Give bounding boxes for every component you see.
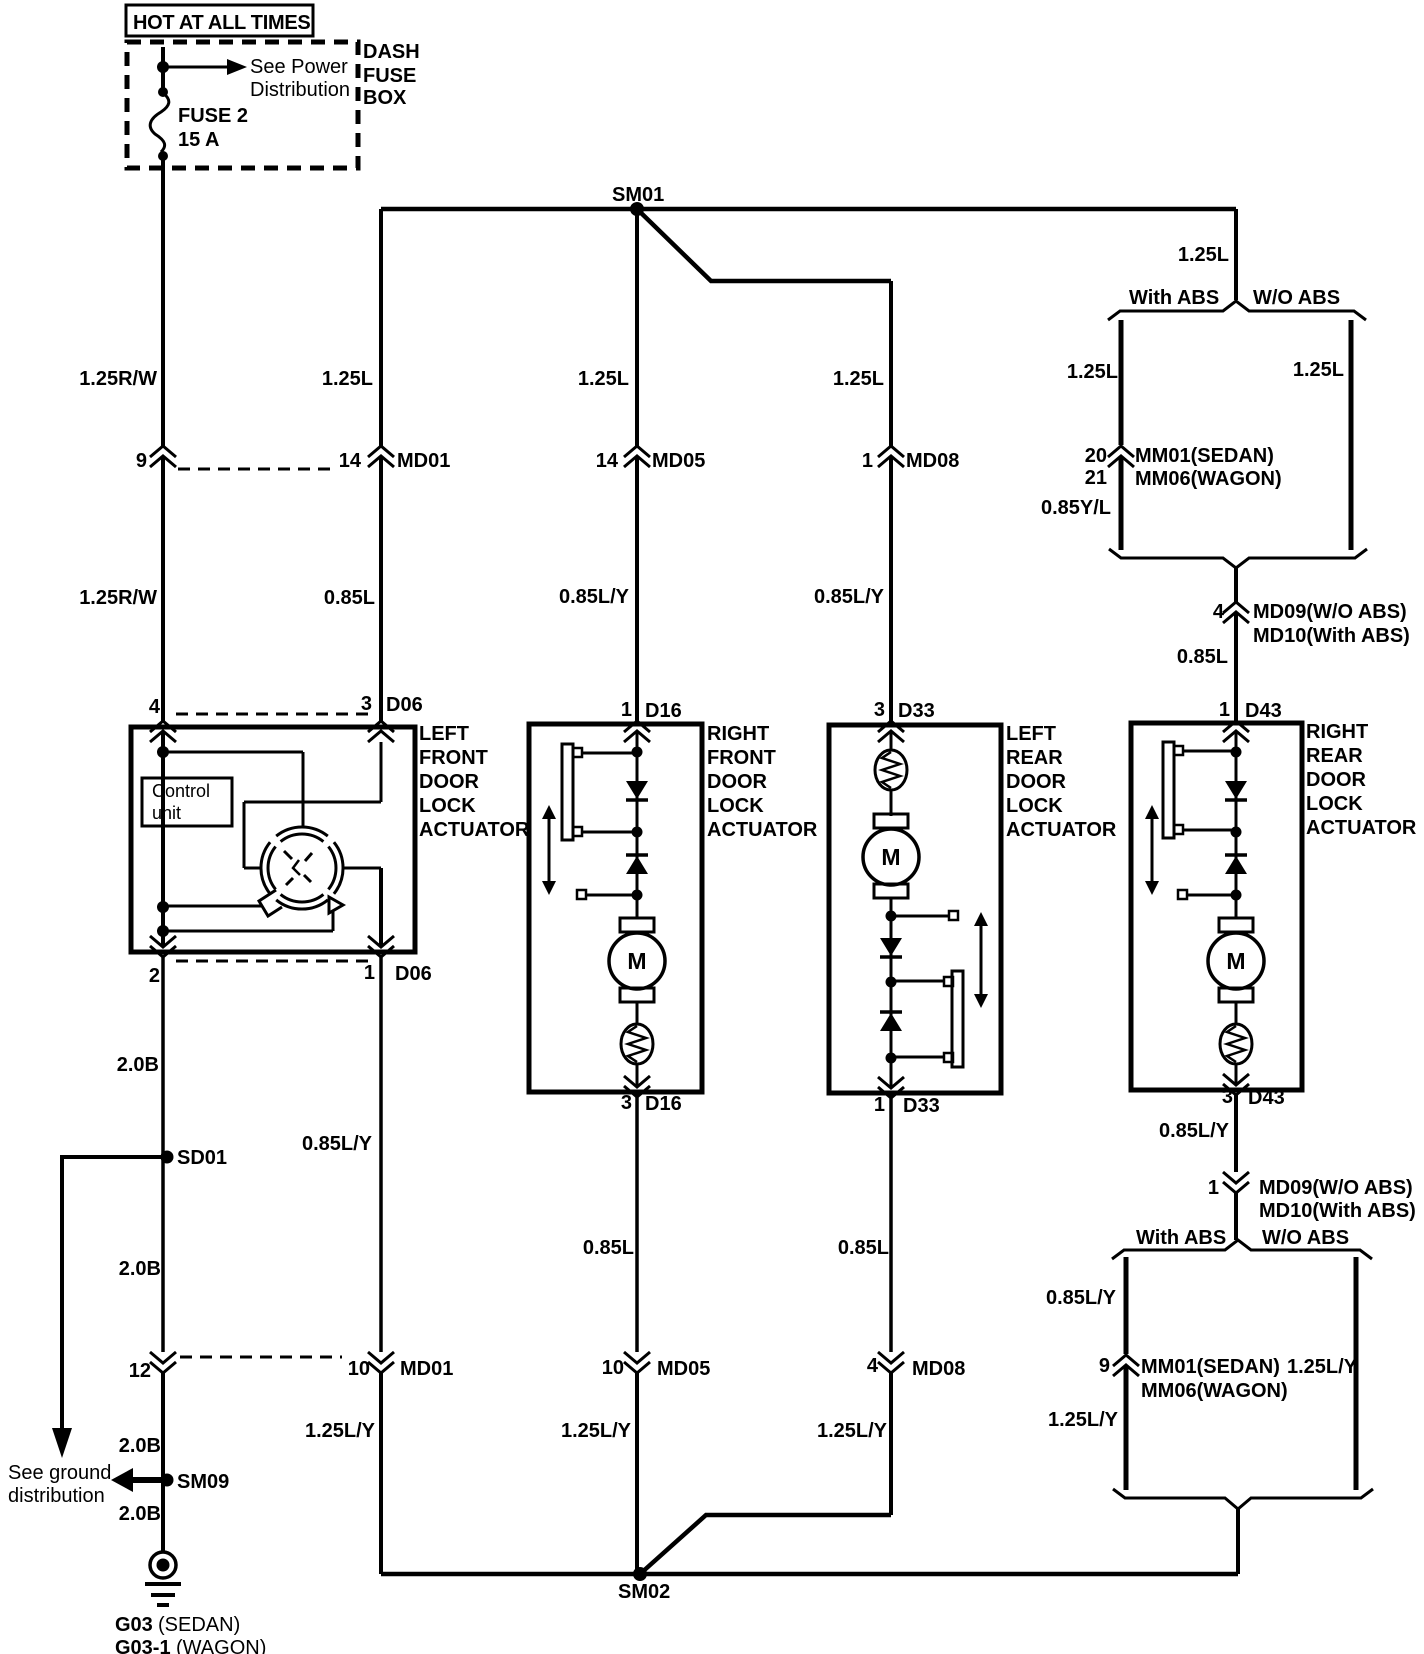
svg-text:3: 3 [1222,1086,1233,1108]
switch plate D43 [1163,742,1183,838]
connector 10 MD01 [348,1352,454,1380]
label box HOT AT ALL TIMES [126,5,313,36]
label MM06(WAGON) lower [1141,1380,1288,1402]
label 1.25R/W lower [79,587,157,609]
connector 14 MD05 [596,446,706,472]
svg-text:4: 4 [149,696,161,718]
svg-text:W/O ABS: W/O ABS [1253,287,1340,309]
svg-text:1.25L: 1.25L [1178,244,1229,266]
svg-text:FRONT: FRONT [419,747,488,769]
svg-text:FUSE: FUSE [363,65,416,87]
connector 4 MD08 [867,1352,965,1380]
svg-text:21: 21 [1085,467,1107,489]
svg-text:D33: D33 [903,1095,940,1117]
svg-text:SM02: SM02 [618,1581,670,1603]
svg-text:1.25R/W: 1.25R/W [79,587,157,609]
svg-text:9: 9 [136,450,147,472]
node D33 lower [886,1053,897,1064]
svg-text:20: 20 [1085,445,1107,467]
dashed link pin2 to pin1 [176,960,368,963]
label 1.25L on C2 [322,368,373,390]
label MM01(SEDAN) lower [1141,1356,1280,1378]
label RIGHT FRONT DOOR LOCK ACTUATOR [707,723,818,841]
wire C5 MD09 to pin 1 [1234,612,1238,721]
svg-text:14: 14 [596,450,619,472]
wire C4 stub to MD08 [889,281,893,446]
connector 9 MM01/MM06 lower [1099,1355,1139,1377]
svg-text:14: 14 [339,450,362,472]
svg-text:0.85L/Y: 0.85L/Y [302,1133,373,1155]
svg-text:See Power: See Power [250,56,348,78]
svg-text:0.85L: 0.85L [1177,646,1228,668]
label SM02 [618,1581,670,1603]
label pin 1 D06 lower [364,962,432,985]
wire C1 connector 9 to pin 4 [161,456,165,721]
wire w/o-ABS branch lower [1354,1257,1359,1490]
svg-text:10: 10 [602,1357,624,1379]
label 1.25L on C3 [578,368,629,390]
brace merge lower (ABS options) [1113,1489,1373,1509]
actuator stroke arrow D33 [974,912,988,1008]
svg-text:W/O ABS: W/O ABS [1262,1227,1349,1249]
svg-text:0.85L/Y: 0.85L/Y [1046,1287,1117,1309]
node D43 top [1231,747,1242,758]
ground symbol G03 [145,1552,181,1605]
label SM09 [177,1471,229,1493]
wire C1 top inside fuse box [161,47,165,95]
box left rear door lock actuator [829,725,1001,1093]
connector 10 MD05 [602,1352,711,1380]
svg-text:1: 1 [621,699,632,721]
label MM01(SEDAN) MM06(WAGON) upper [1135,445,1282,490]
svg-text:D06: D06 [386,694,423,716]
label 0.85L on C5 [1177,646,1228,668]
svg-text:D43: D43 [1245,700,1282,722]
svg-text:ACTUATOR: ACTUATOR [419,819,530,841]
node D33 top [886,911,897,922]
svg-text:15 A: 15 A [178,129,220,151]
node above fuse [158,87,168,97]
svg-text:DOOR: DOOR [419,771,480,793]
pin 3 entry connector D33 [878,721,904,742]
svg-text:LOCK: LOCK [707,795,764,817]
svg-text:REAR: REAR [1006,747,1063,769]
wire w/o-ABS branch upper [1349,320,1354,550]
switch plate D33 [944,971,963,1067]
wire node to plate top D33 [891,980,944,983]
svg-text:10: 10 [348,1358,370,1380]
label With ABS upper [1129,287,1219,309]
wire node to stub terminal D33 [891,911,958,920]
connector 1 MD09/MD10 lower [1208,1172,1249,1199]
wire D43 internal vertical [1235,731,1238,1085]
svg-text:4: 4 [1213,601,1225,623]
svg-text:2.0B: 2.0B [119,1503,161,1525]
svg-text:LOCK: LOCK [1306,793,1363,815]
label W/O ABS upper [1253,287,1340,309]
svg-text:1.25L/Y: 1.25L/Y [817,1420,888,1442]
wire brace to bus SM02 [1236,1507,1240,1574]
label See ground distribution [8,1462,111,1507]
arrow SM09 to ground distribution [111,1468,167,1492]
svg-text:1.25L/Y: 1.25L/Y [1048,1409,1119,1431]
svg-text:9: 9 [1099,1355,1110,1377]
label RIGHT REAR DOOR LOCK ACTUATOR [1306,721,1417,839]
label 0.85L on C2 [324,587,375,609]
label SD01 [177,1147,227,1169]
svg-text:MM01(SEDAN): MM01(SEDAN) [1141,1356,1280,1378]
pin 1 entry connector D16 [624,721,650,742]
wire node to rotary switch top [163,752,303,827]
pin 2 exit connector [150,936,176,957]
svg-text:1: 1 [874,1094,885,1116]
svg-text:1.25L: 1.25L [833,368,884,390]
wire pin3 to rotary switch left [244,742,381,868]
svg-text:ACTUATOR: ACTUATOR [707,819,818,841]
node control unit pin4 feed [157,746,169,758]
svg-text:With ABS: With ABS [1136,1227,1226,1249]
label pin 4 [149,696,161,718]
wire C4 pin1 to bus link [889,1094,893,1515]
label G03 (SEDAN) [115,1614,240,1636]
label MD09(W/O ABS) MD10(With ABS) upper [1253,601,1410,647]
svg-text:G03: G03 [115,1614,153,1636]
label pin 3 D43 lower [1222,1086,1285,1109]
svg-text:Distribution: Distribution [250,79,350,101]
motor M D16 [609,918,665,1002]
arrow to power distribution [227,59,247,75]
pin 3 exit connector D43 [1223,1074,1249,1095]
thermistor D16 [621,1024,653,1064]
label 1.25L/Y on C4 [817,1420,888,1442]
node control unit lower feed 2 [157,925,169,937]
wire C2 bus to MD01 [379,209,383,446]
wire SD01 branch left and down [62,1157,167,1428]
pin 3 exit connector D16 [624,1076,650,1097]
label 1.25R/W upper [79,368,157,390]
label 1.25L/Y with-ABS branch [1048,1409,1119,1431]
svg-text:M: M [881,844,900,870]
svg-text:(SEDAN): (SEDAN) [158,1614,240,1636]
svg-text:RIGHT: RIGHT [707,723,769,745]
rotary switch wiper tab left [259,890,282,916]
svg-text:1.25L: 1.25L [1067,361,1118,383]
motor M D43 [1208,918,1264,1002]
node D16 lower [632,890,643,901]
connector 4 MD09/MD10 [1213,601,1249,623]
wire C5 connector to brace lower [1234,1193,1238,1240]
connector 14 MD01 [339,446,451,472]
label W/O ABS lower [1262,1227,1349,1249]
node SM09 [161,1474,174,1487]
wire node to plate bottom D33 [891,1056,944,1059]
svg-text:1: 1 [862,450,873,472]
label pin 3 D06 [361,693,423,716]
svg-text:MD08: MD08 [912,1358,965,1380]
wire node to stub terminal D43 [1178,890,1236,899]
svg-text:unit: unit [152,803,181,823]
svg-text:FUSE 2: FUSE 2 [178,105,248,127]
dashed link connector 12 to MD01 10 [180,1356,342,1359]
wire with-ABS branch lower [1124,1257,1129,1490]
label 0.85L/Y on C5 upper-lower [1159,1120,1230,1142]
node D43 middle [1231,827,1242,838]
label 0.85L/Y on C3 [559,586,630,608]
svg-text:1: 1 [1219,699,1230,721]
brace split lower (ABS options) [1112,1240,1372,1259]
svg-text:G03-1: G03-1 [115,1637,171,1654]
pin 4 entry connector [150,721,176,742]
svg-text:1.25L/Y: 1.25L/Y [561,1420,632,1442]
svg-text:Control: Control [152,781,210,801]
rotary switch dashed cross [284,851,312,885]
svg-text:MM06(WAGON): MM06(WAGON) [1135,468,1282,490]
wire C2 pin1 to bus [379,955,383,1574]
label pin 3 D16 lower [621,1092,682,1115]
svg-text:LEFT: LEFT [1006,723,1056,745]
svg-text:0.85L/Y: 0.85L/Y [814,586,885,608]
svg-text:DOOR: DOOR [1006,771,1067,793]
svg-text:2.0B: 2.0B [117,1054,159,1076]
rotary switch contact tab right [329,897,343,913]
svg-text:(WAGON): (WAGON) [176,1637,266,1654]
svg-text:2.0B: 2.0B [119,1435,161,1457]
node SD01 [161,1151,174,1164]
label 0.85L/Y with-ABS branch [1046,1287,1117,1309]
fuse FUSE 2 15A [150,93,169,152]
svg-text:1.25L/Y: 1.25L/Y [1287,1356,1358,1378]
label Control unit [152,781,210,823]
svg-text:D33: D33 [898,700,935,722]
svg-text:SD01: SD01 [177,1147,227,1169]
svg-text:1.25L: 1.25L [1293,359,1344,381]
svg-text:MD10(With ABS): MD10(With ABS) [1253,625,1410,647]
box right front door lock actuator [529,724,702,1092]
label SM01 [612,184,664,206]
wire C1 pin2 to ground [161,955,165,1552]
node below fuse [158,151,168,161]
wire node to stub terminal D16 [577,890,637,899]
actuator stroke arrow D16 [542,805,556,895]
pin 1 exit connector [368,936,394,957]
svg-text:4: 4 [867,1355,879,1377]
label 0.85L on C4 lower [838,1237,889,1259]
wire plate top to node D43 [1183,750,1236,753]
svg-text:MD05: MD05 [657,1358,710,1380]
svg-text:1.25L: 1.25L [578,368,629,390]
svg-text:M: M [1226,948,1245,974]
connector 12 on C1 [129,1352,176,1382]
box right rear door lock actuator [1131,723,1302,1090]
label 0.85Y/L [1041,497,1111,519]
label 0.85L/Y on C2 lower [302,1133,373,1155]
dashed link connector 9 to MD01 [178,468,336,471]
brace merge bottom (ABS options) [1109,549,1367,568]
wire C3 bus to MD05 [635,209,639,446]
svg-text:DOOR: DOOR [1306,769,1367,791]
label 2.0B first [117,1054,159,1076]
label LEFT FRONT DOOR LOCK ACTUATOR [419,723,530,841]
node D16 top [632,747,643,758]
brace split top (ABS options) [1108,301,1366,320]
svg-text:MD01: MD01 [400,1358,453,1380]
wire plate top to node D16 [582,752,637,755]
svg-text:0.85L/Y: 0.85L/Y [559,586,630,608]
wire C1 through actuator [161,731,165,947]
wire plate bottom to node D43 [1183,829,1236,832]
diode up D43 [1225,855,1247,874]
label DASH FUSE BOX [363,41,420,109]
arrow see ground distribution [52,1428,72,1458]
dashed box DASH FUSE BOX [127,42,358,168]
wire see-power branch [163,66,227,69]
svg-text:1.25L: 1.25L [322,368,373,390]
svg-text:DASH: DASH [363,41,420,63]
node fuse feed junction [157,61,169,73]
label FUSE 2 15 A [178,105,248,151]
node D43 lower [1231,890,1242,901]
label MD09(W/O ABS) MD10(With ABS) lower [1259,1177,1416,1222]
bus SM01 horizontal [381,207,1236,212]
connector 9 on C1 [136,446,176,472]
svg-text:MD01: MD01 [397,450,450,472]
label With ABS lower [1136,1227,1226,1249]
svg-text:MD09(W/O ABS): MD09(W/O ABS) [1253,601,1407,623]
diode down D33 [880,938,902,957]
svg-text:D16: D16 [645,700,682,722]
wire D16 internal vertical [636,731,639,1087]
diode down D43 [1225,781,1247,800]
label 1.25L with-ABS branch [1067,361,1118,383]
svg-text:0.85L: 0.85L [583,1237,634,1259]
node D33 middle [886,977,897,988]
node SM01 [630,202,644,216]
svg-text:ACTUATOR: ACTUATOR [1006,819,1117,841]
wire node to wiper tab [163,905,262,908]
svg-text:2: 2 [149,965,160,987]
wire C4 diagonal to SM02 [640,1515,891,1574]
switch plate D16 [562,744,582,840]
wire C3 MD05 to pin 1 [635,456,639,721]
wire plate bottom to node D16 [582,831,637,834]
label 0.85L/Y on C4 [814,586,885,608]
wire rotary switch right to pin 1 [343,868,381,947]
label 2.0B second [119,1258,161,1280]
label pin 1 D16 [621,699,682,722]
label 1.25L/Y w/o-ABS branch [1287,1356,1358,1378]
label pin 2 [149,965,160,987]
svg-text:LOCK: LOCK [1006,795,1063,817]
dashed link pin4 to pin3 [176,713,368,716]
label LEFT REAR DOOR LOCK ACTUATOR [1006,723,1117,841]
pin 1 exit connector D33 [878,1077,904,1098]
svg-text:0.85Y/L: 0.85Y/L [1041,497,1111,519]
thermistor D43 [1220,1024,1252,1064]
connector 1 MD08 [862,446,959,472]
diode up D16 [626,855,648,874]
svg-text:BOX: BOX [363,87,407,109]
node SM02 [633,1567,647,1581]
svg-text:FRONT: FRONT [707,747,776,769]
wire node to right contact [163,910,333,931]
svg-text:MD09(W/O ABS): MD09(W/O ABS) [1259,1177,1413,1199]
svg-text:1: 1 [364,962,375,984]
svg-text:MM01(SEDAN): MM01(SEDAN) [1135,445,1274,467]
wire D33 internal vertical [890,731,893,1088]
pin 3 entry connector [368,721,394,742]
wire C5 pin3 to MD09 lower connector [1234,1095,1238,1172]
svg-text:12: 12 [129,1360,151,1382]
label See Power Distribution [250,56,350,101]
svg-text:D43: D43 [1248,1087,1285,1109]
label 1.25L top right [1178,244,1229,266]
thermistor D33 [875,750,907,790]
connector 20/21 MM01 MM06 [1085,445,1134,489]
box left front door lock actuator [131,727,415,952]
wire C5 bus down to brace [1234,209,1238,300]
node D16 middle [632,827,643,838]
svg-text:0.85L: 0.85L [838,1237,889,1259]
svg-text:DOOR: DOOR [707,771,768,793]
wire C4 MD08 to pin 3 [889,456,893,721]
label G03-1 (WAGON) [115,1637,266,1654]
label 2.0B fourth [119,1503,161,1525]
svg-text:With ABS: With ABS [1129,287,1219,309]
label 1.25L on C4 [833,368,884,390]
svg-text:M: M [627,948,646,974]
svg-text:MD10(With ABS): MD10(With ABS) [1259,1200,1416,1222]
svg-text:MD05: MD05 [652,450,705,472]
svg-text:REAR: REAR [1306,745,1363,767]
svg-text:3: 3 [621,1092,632,1114]
svg-text:HOT AT ALL TIMES: HOT AT ALL TIMES [133,12,310,34]
svg-text:2.0B: 2.0B [119,1258,161,1280]
svg-text:ACTUATOR: ACTUATOR [1306,817,1417,839]
svg-text:See ground: See ground [8,1462,111,1484]
label pin 1 D43 [1219,699,1282,722]
svg-text:MM06(WAGON): MM06(WAGON) [1141,1380,1288,1402]
actuator stroke arrow D43 [1145,805,1159,895]
wire with-ABS branch upper [1119,320,1124,550]
svg-text:LOCK: LOCK [419,795,476,817]
wire C1 fuse to connector 9 [161,152,165,446]
pin 1 entry connector D43 [1223,721,1249,742]
svg-text:1.25L/Y: 1.25L/Y [305,1420,376,1442]
wire C5 brace to MD09 connector [1234,566,1238,602]
label pin 1 D33 lower [874,1094,940,1117]
label 0.85L on C3 lower [583,1237,634,1259]
wire C2 MD01 to pin 3 [379,456,383,721]
svg-text:3: 3 [361,693,372,715]
wire C3 pin3 to bus [635,1093,639,1574]
svg-text:0.85L/Y: 0.85L/Y [1159,1120,1230,1142]
svg-text:SM09: SM09 [177,1471,229,1493]
svg-text:1.25R/W: 1.25R/W [79,368,157,390]
label 1.25L/Y on C3 [561,1420,632,1442]
svg-text:3: 3 [874,699,885,721]
svg-text:1: 1 [1208,1177,1219,1199]
rotary switch outer ring [261,827,343,909]
label 2.0B third [119,1435,161,1457]
svg-text:LEFT: LEFT [419,723,469,745]
box Control unit [142,778,232,826]
svg-text:MD08: MD08 [906,450,959,472]
svg-text:distribution: distribution [8,1485,105,1507]
diode down D16 [626,781,648,800]
label pin 3 D33 [874,699,935,722]
svg-text:D06: D06 [395,963,432,985]
diode up D33 [880,1012,902,1031]
